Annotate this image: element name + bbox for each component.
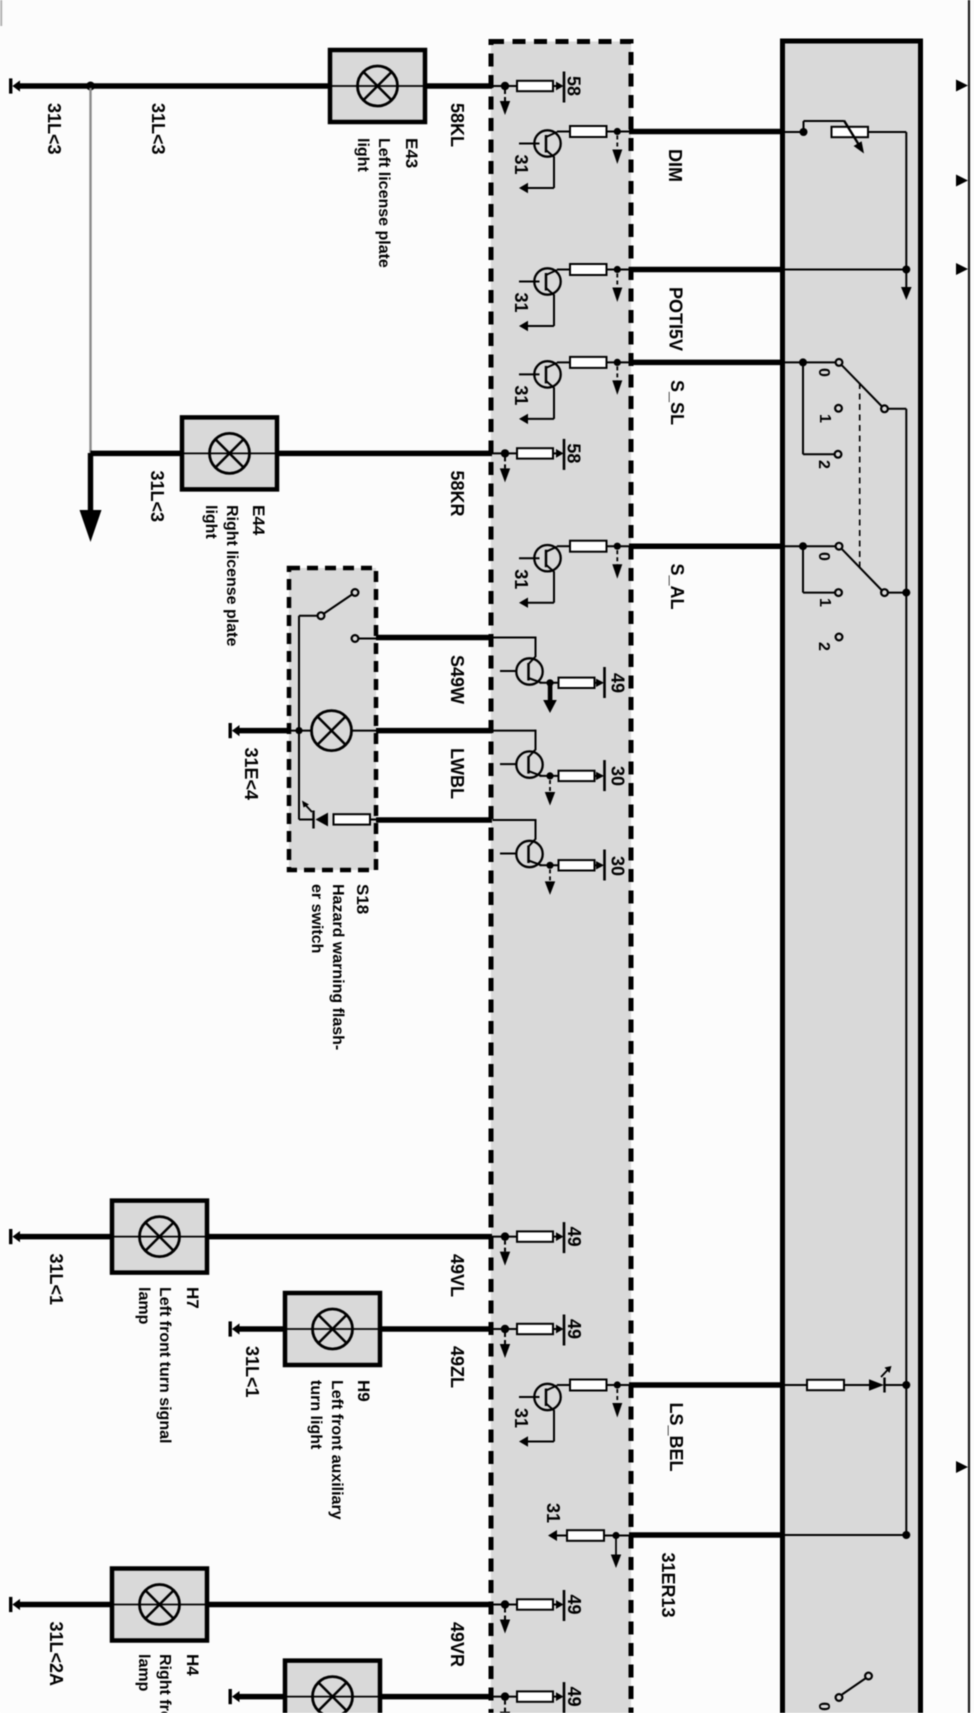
contact 0 (switch 1) — [836, 359, 843, 366]
svg-text:0: 0 — [815, 368, 832, 377]
wire ground feed (gray) to E44 row — [89, 88, 91, 452]
module pin 49 (H7) — [492, 1222, 564, 1266]
wire S_AL inside switch — [785, 545, 803, 547]
svg-text:0: 0 — [815, 1702, 832, 1711]
transistor Q6 (LWBL) to terminal 30 — [493, 730, 605, 792]
svg-text:31L<1: 31L<1 — [242, 1346, 262, 1398]
contact 1 (switch 1) — [835, 405, 842, 412]
wire LWBL — [376, 728, 492, 734]
svg-text:49: 49 — [564, 1687, 584, 1707]
svg-text:LS_BEL: LS_BEL — [666, 1403, 686, 1472]
svg-text:E43: E43 — [402, 138, 421, 168]
svg-text:1: 1 — [816, 414, 833, 423]
wire LED to bus — [885, 1384, 907, 1386]
node 31ER13 bus end — [902, 1531, 910, 1539]
transistor Q7 to terminal 30 — [493, 819, 605, 881]
svg-text:Left front turn signal: Left front turn signal — [156, 1287, 173, 1443]
ground arrow (solid) at Q5 emitter — [548, 684, 553, 702]
svg-text:Right front turn signal: Right front turn signal — [156, 1654, 173, 1713]
S18 output contact (to S49W) — [352, 635, 359, 642]
wire continuation arrow at page edge y=180.5 — [956, 175, 968, 187]
switch 1 lever — [842, 365, 882, 406]
rotary switch S3 contact 0 (bottom, clipped) — [836, 1694, 843, 1701]
lamp E44 — [182, 417, 277, 489]
switch output bus (vertical) — [905, 409, 907, 1535]
node S18 lamp / feed — [295, 727, 302, 734]
contact 1 (switch 2) — [835, 589, 842, 596]
lamp H9 — [285, 1293, 380, 1365]
wire 31L<2A arrow (H4) — [9, 1597, 20, 1612]
svg-text:58: 58 — [564, 443, 584, 463]
node LS_BEL bus — [902, 1381, 910, 1389]
switch 2 lever — [842, 549, 882, 590]
wire 31L<3 arrow (left end, row E43) — [9, 78, 20, 93]
svg-text:Left license plate: Left license plate — [375, 138, 392, 268]
svg-text:S_AL: S_AL — [667, 564, 687, 610]
module pin 49 (bottom) — [492, 1682, 564, 1713]
corner node 31L<3 at E44 row — [89, 450, 91, 453]
ground continuation arrow (31L<3 down) — [88, 453, 93, 511]
wire DIM — [629, 129, 784, 135]
S18 toggle lever — [324, 595, 352, 614]
svg-text:light: light — [354, 138, 371, 172]
wire 31L<1 arrow (H9) — [229, 1321, 240, 1336]
light switch module (solid box) — [783, 41, 921, 1713]
wire S_SL — [629, 360, 784, 366]
svg-text:0: 0 — [815, 552, 832, 561]
svg-text:49: 49 — [564, 1227, 584, 1247]
junction node 31L<3 — [86, 82, 95, 91]
svg-text:Right license plate: Right license plate — [223, 505, 240, 646]
svg-text:49: 49 — [564, 1319, 584, 1339]
wire continuation arrow at page edge y=85.5 — [956, 80, 968, 92]
wire S_AL — [629, 543, 784, 549]
illumination resistor (switch) — [807, 1380, 844, 1390]
wire switch 2 output — [888, 592, 906, 594]
wire pot to bus — [868, 131, 906, 133]
svg-text:S_SL: S_SL — [667, 380, 687, 425]
svg-text:1: 1 — [816, 598, 833, 607]
wire POTI5V inside switch — [785, 269, 906, 271]
svg-text:31L<3: 31L<3 — [44, 103, 64, 155]
wire 58KR/31L<3 (E44 row) — [91, 451, 183, 457]
module pin 58 (E44 feed) — [492, 439, 564, 483]
switch 3 lever (clipped) — [842, 1678, 866, 1695]
illumination LED (switch) — [869, 1379, 884, 1391]
svg-text:Left front auxiliary: Left front auxiliary — [328, 1380, 345, 1520]
contact 0 (switch 2) — [836, 543, 843, 550]
S18 toggle contact (upper) — [352, 589, 359, 596]
svg-text:58KL: 58KL — [447, 103, 467, 147]
potentiometer R (instrument dimmer) — [803, 121, 805, 132]
node DIM — [800, 128, 808, 136]
lamp H10 (bottom, clipped) — [285, 1661, 380, 1713]
lamp H7 — [112, 1201, 207, 1273]
S18 pivot feed wire — [299, 615, 318, 617]
svg-text:H9: H9 — [354, 1380, 373, 1402]
transistor Q5 (S49W) to terminal 49 — [493, 637, 605, 699]
svg-text:31L<2A: 31L<2A — [46, 1622, 66, 1687]
svg-text:49: 49 — [608, 673, 628, 693]
wire S18 resistor output — [376, 817, 492, 823]
svg-text:30: 30 — [608, 856, 628, 876]
mechanical linkage (dashed) — [859, 383, 861, 568]
svg-text:er switch: er switch — [308, 884, 325, 953]
node 31ER13 module — [612, 1532, 619, 1539]
wire continuation arrow at page edge y=269 — [956, 263, 968, 275]
svg-text:49VR: 49VR — [447, 1622, 467, 1667]
node switch outputs joined — [902, 589, 910, 597]
svg-text:58: 58 — [564, 76, 584, 96]
svg-text:31: 31 — [543, 1503, 563, 1523]
wire 49VR — [19, 1602, 112, 1608]
svg-text:lamp: lamp — [135, 1654, 152, 1692]
hazard warning flasher switch S18 (dashed box) — [289, 568, 376, 870]
svg-text:49: 49 — [564, 1595, 584, 1615]
node S_SL — [799, 358, 807, 366]
svg-text:58KR: 58KR — [447, 471, 467, 517]
page border top-left remnant — [0, 0, 2, 26]
svg-text:lamp: lamp — [135, 1287, 152, 1325]
svg-text:turn light: turn light — [307, 1380, 324, 1450]
svg-text:49ZL: 49ZL — [447, 1346, 467, 1388]
svg-text:31L<1: 31L<1 — [46, 1254, 66, 1306]
wire POTI5V — [629, 267, 784, 273]
contact 2 (switch 1) — [835, 451, 842, 458]
resistor (S18) — [334, 814, 371, 824]
wire arrow (bottom lamp) — [229, 1689, 240, 1704]
svg-text:2: 2 — [815, 642, 832, 651]
svg-text:E44: E44 — [249, 505, 268, 536]
svg-text:Hazard warning flash-: Hazard warning flash- — [329, 884, 346, 1050]
ground arrow below pot node — [905, 272, 907, 288]
transistor Q3 (S_SL) with terminal 31 — [511, 357, 631, 424]
wire 31ER13 inside switch — [785, 1534, 906, 1536]
wire S_SL inside switch — [785, 361, 803, 363]
module pin 58 (E43 feed) — [492, 72, 564, 116]
flasher control module K? (dashed interface box) — [491, 42, 631, 1713]
wire DIM inside switch — [785, 131, 804, 133]
svg-text:49VL: 49VL — [447, 1254, 467, 1297]
lamp E43 — [330, 50, 425, 122]
svg-text:2: 2 — [815, 460, 832, 469]
LED arrow (S18) — [305, 804, 313, 812]
contact 2 (switch 2) — [836, 634, 843, 641]
svg-text:31L<3: 31L<3 — [148, 103, 168, 155]
svg-text:S18: S18 — [353, 884, 372, 914]
svg-text:H4: H4 — [183, 1654, 202, 1676]
svg-text:LWBL: LWBL — [447, 748, 467, 799]
ground arrow 31ER13 (module) — [615, 1539, 617, 1556]
wire 49ZR (bottom) — [239, 1694, 286, 1700]
svg-text:31E<4: 31E<4 — [241, 748, 261, 801]
transistor Q8 (LS_BEL) with terminal 31 — [511, 1380, 631, 1447]
wire 31E<4 arrow (left of S18 lamp) — [229, 723, 240, 738]
lamp H4 — [112, 1569, 207, 1641]
node POTI5V / pot return — [902, 266, 910, 274]
svg-text:light: light — [202, 505, 219, 539]
transistor Q4 (S_AL) with terminal 31 — [511, 541, 631, 608]
wire 58KL/31L<3 (E43 row) — [19, 83, 332, 89]
wire continuation arrow at page edge y=1467 — [956, 1461, 968, 1473]
wire 31L<1 arrow (H7) — [9, 1229, 20, 1244]
transistor Q2 (POTI5V) with terminal 31 — [511, 264, 631, 331]
svg-text:31L<3: 31L<3 — [147, 471, 167, 523]
rotary switch S2 (headlight) feed to contact 1 — [803, 545, 836, 547]
diode (S18) — [312, 811, 314, 829]
S18 LED + resistor branch — [299, 819, 313, 821]
svg-text:31ER13: 31ER13 — [658, 1553, 678, 1618]
wire switch 1 output — [888, 408, 906, 410]
ground arrow (dashed) at Q6 emitter — [549, 780, 551, 793]
svg-text:POTI5V: POTI5V — [666, 287, 686, 351]
svg-text:S49W: S49W — [447, 655, 467, 704]
wire 49ZL — [239, 1326, 286, 1332]
transistor Q1 (DIM driver) with terminal 31 — [511, 126, 631, 193]
page border right edge — [968, 0, 970, 1713]
wire LS_BEL inside switch — [785, 1384, 807, 1386]
node S_AL — [799, 542, 807, 550]
module pin 49 (H4) — [492, 1590, 564, 1634]
svg-text:H7: H7 — [183, 1287, 202, 1309]
wire S49W — [376, 635, 492, 641]
ground arrow (dashed) at Q7 emitter — [549, 869, 551, 882]
wire LS_BEL — [629, 1382, 784, 1388]
svg-text:30: 30 — [608, 766, 628, 786]
S18 tell-tale lamp — [289, 730, 312, 732]
svg-text:DIM: DIM — [665, 149, 685, 182]
wire 31E<4 — [239, 728, 290, 734]
wire 31ER13 — [629, 1532, 784, 1538]
module pin 49 (H9) — [492, 1315, 564, 1359]
rotary switch S1 (side light) feed to contact 2 — [803, 361, 836, 363]
wire 49VL — [19, 1234, 112, 1240]
